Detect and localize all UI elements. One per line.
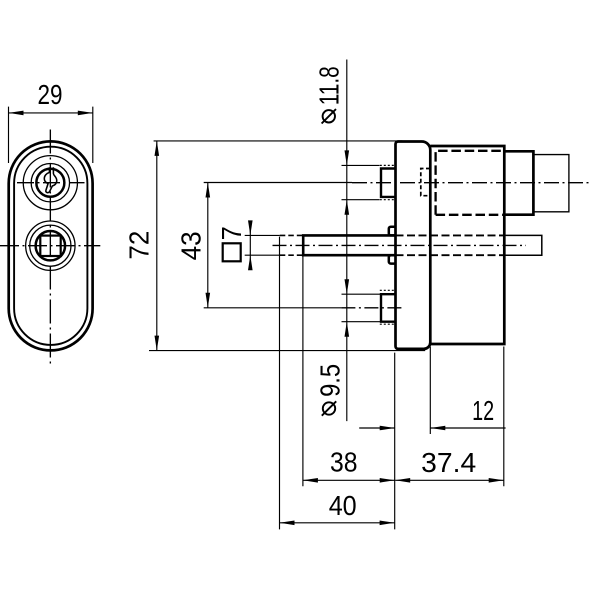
- hub thick circle: [36, 231, 65, 260]
- arrow 37.4 left: [395, 478, 410, 483]
- dimension 38 line: [303, 479, 395, 481]
- spindle dashed left ends: [280, 235, 303, 255]
- extension line plate front face: [394, 353, 396, 530]
- arrow 43 bottom: [206, 293, 211, 308]
- vertical center line front view: [49, 130, 51, 367]
- arrow dia9.5 bottom: [345, 322, 350, 337]
- arrow dia9.5 top: [345, 279, 350, 294]
- horizontal center line cylinder: [17, 182, 85, 184]
- svg-text:72: 72: [124, 231, 155, 260]
- svg-text:11.8: 11.8: [313, 66, 344, 105]
- svg-text:40: 40: [329, 490, 357, 521]
- spindle collar nub bottom: [389, 255, 396, 263]
- arrow 38 left: [303, 478, 318, 483]
- svg-text:37.4: 37.4: [421, 447, 476, 478]
- dimension 7 extension lines: [245, 235, 280, 255]
- arrow dia11.8 bottom: [345, 200, 350, 215]
- hidden socket in plate dashed: [421, 169, 430, 196]
- dimension 29 extension lines: [9, 107, 93, 163]
- dimension 40 line: [280, 522, 395, 524]
- svg-text:7: 7: [216, 226, 247, 240]
- arrow 37.4 right: [489, 478, 504, 483]
- side view middle step cylinder: [504, 151, 533, 214]
- arrow 40 right: [380, 521, 395, 526]
- spindle right end: [504, 235, 542, 255]
- diameter symbol for 11.8: [322, 109, 336, 123]
- bottom stud chamfer dotted: [380, 290, 396, 324]
- arrow 29 left: [9, 111, 24, 116]
- bottom stud axis center line: [204, 307, 342, 309]
- spindle solid part: [303, 235, 395, 255]
- svg-text:12: 12: [472, 395, 494, 426]
- top stud thread crest dotted: [380, 165, 396, 199]
- arrow 72 top: [155, 141, 160, 156]
- svg-text:38: 38: [330, 447, 358, 478]
- extension line spindle tip: [279, 237, 281, 530]
- spindle hidden through body: [396, 235, 504, 255]
- top stud solid outline: [381, 169, 396, 197]
- hidden cylinder body dashed: [436, 151, 504, 215]
- arrow 38 right: [380, 478, 395, 483]
- front view outer plate outline: [9, 141, 93, 350]
- dimension 12 line left tail: [359, 427, 395, 429]
- dimension 29 line: [9, 112, 93, 114]
- cylinder plug thick circle: [36, 169, 64, 197]
- arrow dia11.8 top: [345, 150, 350, 165]
- dia 11.8 extension lines: [342, 165, 380, 199]
- extension line plate back face: [429, 347, 431, 435]
- spindle center line: [273, 244, 527, 246]
- hub ring outer: [26, 221, 75, 270]
- arrow 7 top: [248, 220, 253, 235]
- keyhole profile: [44, 167, 56, 192]
- diameter dimensions vertical line: [346, 60, 348, 422]
- arrow 7 bottom: [248, 255, 253, 270]
- arrow 12 right: [430, 426, 445, 431]
- dimension 72 line: [156, 141, 158, 351]
- dimension 43 line: [207, 183, 209, 308]
- dia 9.5 extension lines: [342, 294, 381, 322]
- bottom stud solid outline: [381, 294, 396, 322]
- cylinder ring outer: [23, 156, 77, 210]
- svg-text:9.5: 9.5: [314, 364, 345, 397]
- hub ring middle: [30, 225, 71, 266]
- arrow 12 left: [380, 426, 395, 431]
- arrow 40 left: [280, 521, 295, 526]
- side view housing body: [430, 146, 504, 344]
- arrow 43 top: [206, 183, 211, 198]
- dimension 7 line: [249, 221, 251, 270]
- horizontal center line square hub: [0, 245, 100, 247]
- arrow 29 right: [78, 111, 93, 116]
- arrow 72 bottom: [155, 336, 160, 351]
- square symbol for square 7 label: [223, 243, 241, 261]
- dimension 12 line right tail: [430, 427, 505, 429]
- dimension 37.4 line: [395, 479, 504, 481]
- spindle collar nub top: [389, 227, 396, 236]
- diameter symbol for 9.5: [322, 401, 336, 415]
- svg-text:43: 43: [176, 231, 207, 260]
- extension line spindle solid start: [302, 257, 304, 487]
- side view plate: [396, 142, 431, 349]
- extension line housing end: [503, 347, 505, 487]
- cylinder ring middle: [31, 164, 69, 202]
- front view inner plate outline: [14, 147, 87, 345]
- top stud axis center line: [204, 182, 352, 184]
- svg-text:29: 29: [38, 79, 63, 110]
- dimension 72 extension lines: [149, 141, 425, 351]
- side view end cylinder: [533, 155, 569, 212]
- square spindle hole: [40, 236, 60, 256]
